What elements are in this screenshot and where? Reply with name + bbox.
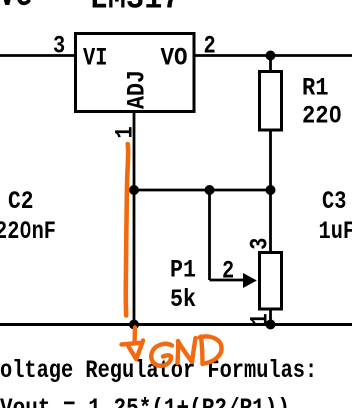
svg-text:5k: 5k <box>170 285 196 314</box>
orange marker letter D <box>200 336 222 364</box>
ground rail <box>0 323 352 326</box>
svg-text:R1: R1 <box>302 73 329 102</box>
junction ADJ node <box>129 185 139 195</box>
wire ADJ node to R1 bottom node <box>134 189 271 192</box>
svg-text:VO: VO <box>161 43 188 72</box>
svg-text:C3: C3 <box>322 187 346 216</box>
junction R1/pot node <box>266 185 276 195</box>
regulator U1 LM317 body <box>76 34 195 112</box>
potentiometer P1 body <box>260 253 282 310</box>
resistor R1 body <box>260 72 282 131</box>
svg-text:P1: P1 <box>170 255 196 284</box>
svg-text:VG: VG <box>0 0 32 16</box>
zero dot mask for 220nF <box>24 226 28 232</box>
svg-text:3: 3 <box>53 31 65 60</box>
svg-text:2: 2 <box>222 256 234 285</box>
junction output node <box>266 51 276 61</box>
svg-text:LM317: LM317 <box>90 0 181 19</box>
orange marker letter G <box>151 344 172 366</box>
junction ADJ/ground <box>129 320 139 330</box>
svg-text:Voltage Regulator Formulas:: Voltage Regulator Formulas: <box>0 356 317 385</box>
wire wiper branch vertical <box>208 190 211 280</box>
orange marker GND arrowhead triangle <box>122 341 144 360</box>
wire input to VI pin <box>0 54 76 57</box>
svg-text:Vout = 1.25*(1+(R2/R1)): Vout = 1.25*(1+(R2/R1)) <box>0 394 290 408</box>
wire ADJ pin down to ground rail <box>133 112 136 325</box>
wire pot bottom to ground rail <box>269 311 272 325</box>
zero dot mask for 220 <box>333 111 337 117</box>
orange marker GND arrow shaft <box>132 328 137 344</box>
orange marker highlight line along ADJ wire <box>126 144 128 316</box>
svg-text:ADJ: ADJ <box>123 70 152 109</box>
junction wiper branch node <box>205 185 215 195</box>
svg-text:3: 3 <box>246 238 275 250</box>
svg-text:1uF: 1uF <box>319 217 352 246</box>
svg-text:C2: C2 <box>8 187 34 216</box>
svg-text:VI: VI <box>83 43 107 72</box>
wire R1 bottom to pot pin 3 <box>269 131 272 252</box>
wiper arrow <box>243 273 257 288</box>
junction pot/ground <box>266 320 276 330</box>
wire wiper branch horizontal <box>210 279 244 282</box>
wire VO output to right edge <box>194 54 352 57</box>
wire VO to R1 top <box>269 56 272 72</box>
orange marker letter N <box>178 338 196 363</box>
